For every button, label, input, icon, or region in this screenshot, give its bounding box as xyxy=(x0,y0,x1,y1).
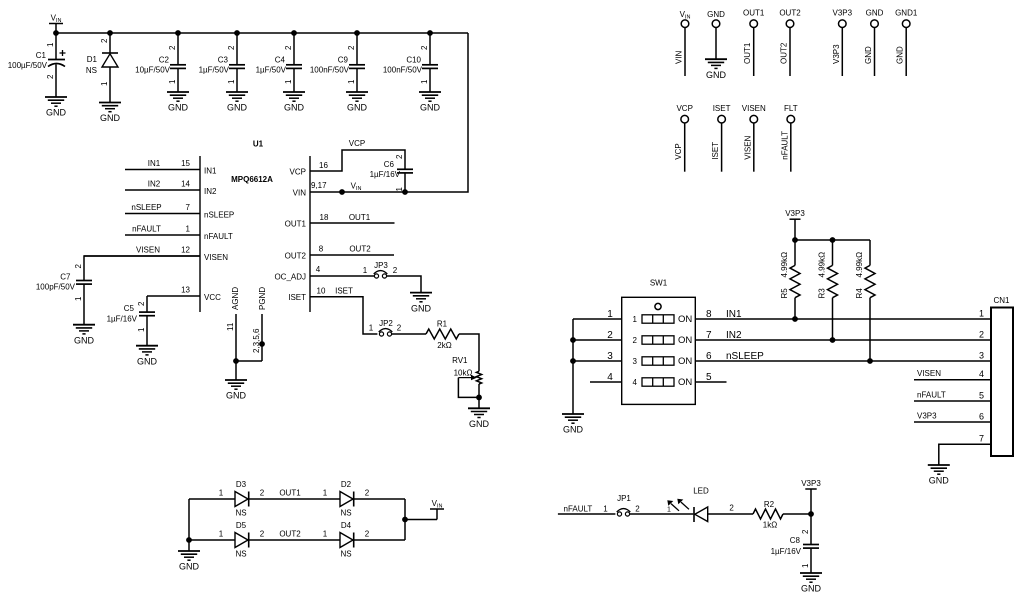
svg-text:1: 1 xyxy=(369,324,374,333)
svg-text:15: 15 xyxy=(181,159,190,168)
svg-text:13: 13 xyxy=(181,286,190,295)
svg-text:3: 3 xyxy=(979,351,984,361)
jumper JP1 xyxy=(617,494,641,516)
svg-text:VISEN: VISEN xyxy=(136,246,160,255)
svg-text:4: 4 xyxy=(633,378,638,387)
svg-text:4.99kΩ: 4.99kΩ xyxy=(855,252,864,278)
wire/net IN1 to U1 pin 15 xyxy=(125,159,217,176)
svg-text:VISEN: VISEN xyxy=(743,135,752,159)
svg-text:2: 2 xyxy=(227,45,236,50)
pin CN1-1 xyxy=(979,309,984,319)
wire/net nFAULT to U1 pin 1 xyxy=(125,225,233,242)
svg-text:R5: R5 xyxy=(780,288,789,299)
wire JP2 to R1 xyxy=(392,333,426,335)
capacitor C2 10uF/50V xyxy=(135,33,186,92)
svg-text:1: 1 xyxy=(323,489,328,498)
svg-text:GND: GND xyxy=(420,103,441,113)
wire RV1 to ground xyxy=(478,384,480,408)
svg-text:D5: D5 xyxy=(236,521,247,530)
svg-text:2: 2 xyxy=(74,264,83,269)
resistor R2 1kOhm xyxy=(753,500,783,530)
svg-text:8: 8 xyxy=(706,309,712,320)
wire SW1 left pins to ground bus xyxy=(570,309,622,414)
svg-text:100nF/50V: 100nF/50V xyxy=(310,66,350,75)
svg-text:C1: C1 xyxy=(36,51,47,60)
svg-text:C8: C8 xyxy=(790,536,801,545)
svg-text:GND: GND xyxy=(866,9,884,18)
svg-text:GND: GND xyxy=(179,562,200,572)
ground below C4 xyxy=(283,92,305,113)
svg-text:R3: R3 xyxy=(818,288,827,299)
svg-text:ON: ON xyxy=(678,314,692,325)
svg-text:JP1: JP1 xyxy=(617,494,631,503)
svg-text:7: 7 xyxy=(979,434,984,444)
op-amp U1 MPQ6612A body xyxy=(200,140,310,313)
svg-text:GND: GND xyxy=(929,476,950,486)
svg-text:ON: ON xyxy=(678,356,692,367)
svg-text:GND: GND xyxy=(864,46,873,64)
pin CN1-2 xyxy=(979,330,984,340)
svg-text:IN2: IN2 xyxy=(726,330,742,341)
svg-text:V3P3: V3P3 xyxy=(801,479,821,488)
test point VIN (row 1) xyxy=(675,10,691,76)
test point VCP (row 2) xyxy=(674,104,693,172)
svg-text:100nF/50V: 100nF/50V xyxy=(383,66,423,75)
ground below C2 xyxy=(167,92,189,113)
svg-text:GND: GND xyxy=(284,103,305,113)
wire diode-bridge right bus to VIN xyxy=(402,499,437,540)
ground below C7 xyxy=(73,325,95,346)
svg-text:V3P3: V3P3 xyxy=(832,44,841,64)
svg-text:4: 4 xyxy=(607,372,613,383)
svg-text:V3P3: V3P3 xyxy=(785,209,805,218)
svg-text:1: 1 xyxy=(667,507,671,514)
svg-text:2: 2 xyxy=(801,529,810,534)
wire SW1 pin 5 stub xyxy=(695,372,726,383)
power flag VIN (top-left) xyxy=(49,14,63,34)
test point GND1 (row 1) xyxy=(895,9,918,76)
resistor R3 4.99kOhm xyxy=(818,240,838,343)
svg-text:nSLEEP: nSLEEP xyxy=(204,211,234,220)
wire/net OUT2 from pin 8 xyxy=(285,245,394,261)
svg-text:ON: ON xyxy=(678,377,692,388)
svg-text:5: 5 xyxy=(706,372,712,383)
svg-text:R1: R1 xyxy=(437,320,448,329)
svg-text:LED: LED xyxy=(693,487,709,496)
wire top VIN rail xyxy=(56,32,468,34)
resistor R1 2kOhm xyxy=(426,320,459,351)
ground below SW1 bus xyxy=(562,414,584,435)
svg-text:C9: C9 xyxy=(338,56,349,65)
test point OUT2 (row 1) xyxy=(779,9,801,76)
pin CN1-5 xyxy=(914,391,991,402)
svg-text:18: 18 xyxy=(320,213,329,222)
wire SW1 pin 7 / net IN2 to CN1 pin 2 xyxy=(695,330,991,341)
svg-text:C4: C4 xyxy=(275,56,286,65)
svg-text:1µF/16V: 1µF/16V xyxy=(370,170,401,179)
jumper JP3 xyxy=(374,261,398,278)
svg-text:1kΩ: 1kΩ xyxy=(763,521,777,530)
wire row OUT2 xyxy=(189,530,405,541)
svg-text:2: 2 xyxy=(284,45,293,50)
switch SW1 element 3 xyxy=(633,356,693,367)
svg-text:7: 7 xyxy=(186,203,191,212)
svg-text:1µF/50V: 1µF/50V xyxy=(199,66,230,75)
svg-text:2: 2 xyxy=(260,530,265,539)
capacitor C8 1uF/16V xyxy=(771,514,819,573)
potentiometer RV1 10kOhm xyxy=(452,356,482,400)
svg-text:AGND: AGND xyxy=(231,287,240,310)
svg-text:JP2: JP2 xyxy=(379,319,393,328)
svg-text:1: 1 xyxy=(603,504,608,513)
svg-text:GND: GND xyxy=(469,419,490,429)
wire OC_ADJ pin 4 to jumper JP3 xyxy=(274,265,374,282)
ground below C9 xyxy=(346,92,368,113)
svg-text:2: 2 xyxy=(395,154,404,159)
svg-text:100pF/50V: 100pF/50V xyxy=(36,283,76,292)
wire/net nSLEEP to U1 pin 7 xyxy=(125,203,234,220)
svg-text:VCP: VCP xyxy=(290,168,306,177)
svg-text:NS: NS xyxy=(340,550,351,559)
svg-text:OUT1: OUT1 xyxy=(349,213,371,222)
svg-text:VCP: VCP xyxy=(349,139,365,148)
svg-text:1: 1 xyxy=(227,79,236,84)
svg-text:1: 1 xyxy=(74,296,83,301)
svg-text:OUT2: OUT2 xyxy=(780,42,789,64)
svg-text:SW1: SW1 xyxy=(650,279,668,288)
ground below AGND/PGND xyxy=(225,380,247,401)
svg-text:4: 4 xyxy=(979,369,984,379)
capacitor C9 100nF/50V xyxy=(310,33,365,92)
svg-text:1: 1 xyxy=(186,225,191,234)
svg-text:VCC: VCC xyxy=(204,293,221,302)
svg-text:1: 1 xyxy=(363,266,368,275)
svg-text:VCP: VCP xyxy=(674,143,683,159)
power flag V3P3 (LED) xyxy=(801,479,821,514)
switch SW1 element 2 xyxy=(633,335,693,346)
ground below GND test point xyxy=(705,59,727,80)
ground below CN1 pin 7 xyxy=(928,465,950,486)
pin CN1-4 xyxy=(914,369,991,380)
svg-text:1: 1 xyxy=(979,309,984,319)
svg-text:2: 2 xyxy=(607,330,613,341)
svg-text:3: 3 xyxy=(607,351,613,362)
connector CN1 body xyxy=(991,296,1013,456)
test point GND (row 1) xyxy=(707,10,725,59)
wire JP3 to ground xyxy=(387,276,421,293)
svg-text:2: 2 xyxy=(260,489,265,498)
svg-text:6: 6 xyxy=(979,412,984,422)
svg-text:14: 14 xyxy=(181,180,190,189)
svg-text:9,17: 9,17 xyxy=(311,181,327,190)
capacitor C1 100uF/50V (polarized) xyxy=(8,33,66,97)
power flag VIN (diode bridge) xyxy=(430,499,444,510)
resistor R4 4.99kOhm xyxy=(855,240,875,364)
svg-text:4: 4 xyxy=(316,265,321,274)
svg-text:VIN: VIN xyxy=(293,189,307,198)
capacitor C5 1uF/16V xyxy=(107,296,155,346)
svg-text:GND: GND xyxy=(168,103,189,113)
diode D3 (NS) xyxy=(235,480,249,518)
test point VISEN (row 2) xyxy=(742,104,766,172)
diode D5 (NS) xyxy=(235,521,249,559)
svg-text:GND: GND xyxy=(347,103,368,113)
svg-text:1: 1 xyxy=(219,489,224,498)
wire VCC to U1 pin 13 xyxy=(147,286,221,303)
svg-text:10µF/50V: 10µF/50V xyxy=(135,66,171,75)
svg-text:2: 2 xyxy=(347,45,356,50)
wire diode-bridge left bus xyxy=(186,499,192,551)
svg-text:C6: C6 xyxy=(384,160,395,169)
svg-text:1: 1 xyxy=(168,79,177,84)
svg-text:R4: R4 xyxy=(855,288,864,299)
svg-text:OUT2: OUT2 xyxy=(779,9,801,18)
svg-text:1µF/16V: 1µF/16V xyxy=(107,315,138,324)
svg-text:1: 1 xyxy=(46,42,55,47)
svg-text:NS: NS xyxy=(86,66,97,75)
svg-text:RV1: RV1 xyxy=(452,356,468,365)
wire V3P3 distribution xyxy=(792,237,870,243)
svg-text:GND: GND xyxy=(226,391,247,401)
svg-text:2: 2 xyxy=(46,74,55,79)
svg-text:OUT1: OUT1 xyxy=(743,9,765,18)
ground below D1 xyxy=(99,103,121,124)
svg-text:GND: GND xyxy=(707,10,725,19)
svg-text:CN1: CN1 xyxy=(993,296,1010,305)
svg-text:VCP: VCP xyxy=(676,104,692,113)
svg-text:10kΩ: 10kΩ xyxy=(454,369,473,378)
svg-text:GND: GND xyxy=(227,103,248,113)
ground below diode bus xyxy=(178,551,200,572)
test point V3P3 (row 1) xyxy=(832,9,853,76)
wire SW1 pin 6 / net nSLEEP to CN1 pin 3 xyxy=(695,351,991,362)
switch SW1 element 1 xyxy=(633,314,693,325)
svg-text:nFAULT: nFAULT xyxy=(780,131,789,160)
svg-text:10: 10 xyxy=(317,287,326,296)
svg-text:R2: R2 xyxy=(764,500,775,509)
svg-text:5: 5 xyxy=(979,391,984,401)
svg-text:V3P3: V3P3 xyxy=(917,412,937,421)
svg-text:2: 2 xyxy=(979,330,984,340)
test point OUT1 (row 1) xyxy=(743,9,765,76)
svg-text:PGND: PGND xyxy=(258,287,267,310)
svg-text:C7: C7 xyxy=(60,273,71,282)
svg-text:IN2: IN2 xyxy=(148,180,161,189)
ground below C3 xyxy=(226,92,248,113)
svg-text:OUT1: OUT1 xyxy=(279,489,301,498)
svg-text:D1: D1 xyxy=(87,55,98,64)
svg-text:2: 2 xyxy=(168,45,177,50)
svg-text:2: 2 xyxy=(420,45,429,50)
svg-text:OC_ADJ: OC_ADJ xyxy=(274,273,306,282)
ground below C5 xyxy=(136,346,158,367)
wire/net VISEN to U1 pin 12 xyxy=(84,246,228,263)
svg-text:7: 7 xyxy=(706,330,712,341)
svg-text:1: 1 xyxy=(607,309,613,320)
svg-text:IN1: IN1 xyxy=(204,167,217,176)
svg-text:2: 2 xyxy=(397,324,402,333)
svg-text:GND: GND xyxy=(896,46,905,64)
test point ISET (row 2) xyxy=(711,104,731,172)
svg-text:GND: GND xyxy=(801,584,822,594)
diode D4 (NS) xyxy=(340,521,354,559)
wire R1 to RV1 xyxy=(459,334,479,371)
test point GND (row 1) xyxy=(864,9,884,76)
resistor R5 4.99kOhm xyxy=(780,240,800,322)
diode D1 (NS) xyxy=(86,33,118,103)
svg-text:GND: GND xyxy=(411,303,432,313)
svg-text:D4: D4 xyxy=(341,521,352,530)
svg-text:IN1: IN1 xyxy=(726,309,742,320)
wire LED to R2 xyxy=(708,504,753,515)
svg-text:2: 2 xyxy=(137,301,146,306)
wire/net OUT1 from pin 18 xyxy=(285,213,395,229)
svg-text:2,3,5,6: 2,3,5,6 xyxy=(252,328,261,353)
pin CN1-3 xyxy=(979,351,984,361)
pin CN1-6 xyxy=(914,412,991,423)
svg-text:ISET: ISET xyxy=(713,104,731,113)
svg-text:nFAULT: nFAULT xyxy=(917,391,946,400)
capacitor C3 1uF/50V xyxy=(199,33,245,92)
svg-text:GND: GND xyxy=(137,356,158,366)
svg-text:GND: GND xyxy=(46,108,67,118)
svg-text:1: 1 xyxy=(420,79,429,84)
svg-text:D3: D3 xyxy=(236,480,247,489)
wire ISET pin 10 xyxy=(288,287,377,335)
svg-text:VISEN: VISEN xyxy=(742,104,766,113)
capacitor C4 1uF/50V xyxy=(256,33,302,92)
wire/net IN2 to U1 pin 14 xyxy=(125,180,217,197)
svg-text:2kΩ: 2kΩ xyxy=(437,341,451,350)
wire SW1 pin 8 / net IN1 to CN1 pin 1 xyxy=(695,309,991,320)
svg-text:GND: GND xyxy=(706,70,727,80)
pin PGND label (U1 pins 2,3,5,6) xyxy=(258,287,267,310)
svg-text:OUT2: OUT2 xyxy=(285,252,307,261)
switch SW1 body xyxy=(622,279,696,405)
svg-text:VISEN: VISEN xyxy=(917,369,941,378)
node rail junctions xyxy=(53,30,433,36)
svg-text:2: 2 xyxy=(635,504,640,513)
svg-text:GND: GND xyxy=(563,425,584,435)
wire JP1 to LED xyxy=(630,513,694,515)
svg-text:OUT2: OUT2 xyxy=(279,530,301,539)
svg-text:IN2: IN2 xyxy=(204,187,217,196)
capacitor C7 100pF/50V xyxy=(36,256,200,325)
svg-text:C10: C10 xyxy=(406,56,421,65)
svg-text:nFAULT: nFAULT xyxy=(132,225,161,234)
svg-text:C3: C3 xyxy=(218,56,229,65)
svg-text:JP3: JP3 xyxy=(374,261,388,270)
svg-text:OUT2: OUT2 xyxy=(349,245,371,254)
LED D (light emitting diode) xyxy=(667,487,709,523)
wire AGND pin 11 to ground xyxy=(226,314,239,380)
svg-text:nFAULT: nFAULT xyxy=(564,504,593,513)
svg-text:2: 2 xyxy=(633,336,638,345)
svg-text:NS: NS xyxy=(235,509,246,518)
svg-text:C5: C5 xyxy=(124,304,135,313)
svg-text:8: 8 xyxy=(319,245,324,254)
wire rail right drop to VIN pin xyxy=(310,33,468,192)
svg-text:C2: C2 xyxy=(159,56,170,65)
svg-text:ON: ON xyxy=(678,335,692,346)
capacitor C6 1uF/16V xyxy=(370,154,413,195)
wire R2 to V3P3/C8 node xyxy=(783,511,814,517)
svg-text:12: 12 xyxy=(181,246,190,255)
svg-text:1: 1 xyxy=(219,530,224,539)
svg-text:2: 2 xyxy=(365,489,370,498)
svg-text:1: 1 xyxy=(347,79,356,84)
svg-text:1: 1 xyxy=(284,79,293,84)
svg-text:nFAULT: nFAULT xyxy=(204,232,233,241)
ground below JP3 xyxy=(410,293,432,314)
svg-text:OUT1: OUT1 xyxy=(743,42,752,64)
ground below C8 xyxy=(800,573,822,594)
svg-text:GND: GND xyxy=(74,335,95,345)
switch SW1 element 4 xyxy=(633,377,693,388)
svg-text:1: 1 xyxy=(633,315,638,324)
svg-text:ISET: ISET xyxy=(711,142,720,160)
svg-text:V3P3: V3P3 xyxy=(833,9,853,18)
svg-text:ISET: ISET xyxy=(335,287,353,296)
svg-text:100µF/50V: 100µF/50V xyxy=(8,61,48,70)
svg-text:nSLEEP: nSLEEP xyxy=(131,203,161,212)
svg-text:FLT: FLT xyxy=(784,104,798,113)
svg-text:1: 1 xyxy=(801,563,810,568)
svg-text:nSLEEP: nSLEEP xyxy=(726,351,764,362)
svg-text:D2: D2 xyxy=(341,480,352,489)
test point FLT (row 2) xyxy=(780,104,797,172)
svg-text:GND: GND xyxy=(100,113,121,123)
svg-text:2: 2 xyxy=(729,504,734,513)
svg-text:2: 2 xyxy=(100,38,109,43)
power flag V3P3 (pull-ups) xyxy=(785,209,805,240)
svg-text:1: 1 xyxy=(137,327,146,332)
svg-text:MPQ6612A: MPQ6612A xyxy=(231,175,273,184)
capacitor C10 100nF/50V xyxy=(383,33,438,92)
pin AGND label (U1 pin 11) xyxy=(231,287,240,310)
svg-text:1µF/16V: 1µF/16V xyxy=(771,547,802,556)
svg-text:U1: U1 xyxy=(253,140,264,149)
ground below C1 xyxy=(45,97,67,118)
wire VIN pins 9,17 xyxy=(293,181,362,198)
svg-text:4.99kΩ: 4.99kΩ xyxy=(818,252,827,278)
svg-text:16: 16 xyxy=(319,161,328,170)
svg-text:ISET: ISET xyxy=(288,293,306,302)
svg-text:4.99kΩ: 4.99kΩ xyxy=(780,252,789,278)
svg-text:1: 1 xyxy=(100,81,109,86)
svg-text:2: 2 xyxy=(393,266,398,275)
jumper JP2 xyxy=(379,319,402,336)
wire VCP pin 16 loop xyxy=(290,139,405,177)
svg-text:NS: NS xyxy=(235,550,246,559)
pin CN1-7 xyxy=(939,434,991,465)
wire/net nFAULT to JP1 xyxy=(558,504,616,514)
svg-text:VIN: VIN xyxy=(675,50,684,64)
svg-text:1: 1 xyxy=(323,530,328,539)
svg-text:6: 6 xyxy=(706,351,712,362)
diode D2 (NS) xyxy=(340,480,354,518)
svg-text:3: 3 xyxy=(633,357,638,366)
svg-text:OUT1: OUT1 xyxy=(285,220,307,229)
ground below C10 xyxy=(419,92,441,113)
svg-text:VISEN: VISEN xyxy=(204,253,228,262)
svg-text:GND1: GND1 xyxy=(895,9,918,18)
svg-text:2: 2 xyxy=(365,530,370,539)
svg-text:IN1: IN1 xyxy=(148,159,161,168)
svg-text:1µF/50V: 1µF/50V xyxy=(256,66,287,75)
wire row OUT1 xyxy=(189,489,405,500)
svg-text:NS: NS xyxy=(340,509,351,518)
